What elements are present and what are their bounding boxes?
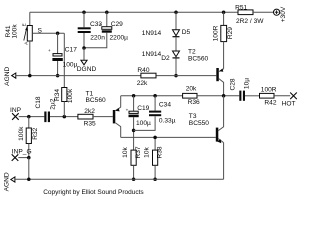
svg-text:T2: T2 [188, 48, 196, 55]
svg-text:100k: 100k [11, 24, 18, 39]
svg-text:R51: R51 [235, 4, 247, 11]
resistor R29 100R [212, 10, 234, 68]
svg-text:C29: C29 [111, 21, 123, 28]
node AGND mid [4, 67, 16, 86]
resistor R42 100R [260, 87, 291, 107]
potentiometer R41 [5, 12, 32, 75]
svg-text:10k: 10k [144, 146, 151, 157]
node AGND bottom [4, 172, 15, 191]
terminal HOT [282, 93, 297, 108]
svg-text:R32: R32 [32, 127, 39, 139]
resistor R37 10k [122, 146, 142, 181]
svg-text:R36: R36 [188, 99, 200, 106]
svg-text:20k: 20k [186, 86, 197, 93]
svg-text:C28: C28 [230, 78, 237, 90]
svg-text:INP_G: INP_G [12, 149, 32, 156]
svg-text:100k: 100k [18, 126, 25, 141]
svg-text:100µ: 100µ [136, 120, 151, 127]
svg-text:D5: D5 [182, 29, 191, 36]
svg-text:C17: C17 [65, 47, 77, 54]
svg-text:100µ: 100µ [63, 61, 78, 68]
wire bottom rail [15, 178, 224, 182]
svg-text:+30V: +30V [280, 6, 287, 22]
svg-text:0.33µ: 0.33µ [159, 118, 176, 125]
svg-text:S: S [38, 27, 43, 34]
svg-text:AGND: AGND [4, 67, 11, 86]
svg-text:10µ: 10µ [243, 78, 250, 89]
capacitor C34 0.33u [134, 96, 176, 131]
svg-text:C34: C34 [159, 102, 171, 109]
wire top rail [30, 11, 238, 13]
svg-text:DGND: DGND [77, 66, 97, 73]
svg-text:E: E [22, 23, 27, 26]
svg-text:1N914: 1N914 [142, 51, 162, 58]
svg-text:C19: C19 [137, 105, 149, 112]
input INP_G [12, 149, 32, 180]
capacitor C18 2u2 [35, 96, 78, 122]
svg-text:100k: 100k [67, 88, 74, 103]
svg-text:Copyright by Elliot Sound Prod: Copyright by Elliot Sound Products [43, 189, 144, 196]
resistor R40 22k [137, 67, 156, 87]
wire T3 base row [121, 136, 216, 140]
svg-text:C18: C18 [35, 96, 42, 108]
svg-text:22k: 22k [137, 80, 148, 87]
svg-text:R40: R40 [137, 67, 149, 74]
transistor T3 BC550 [189, 96, 224, 180]
capacitor C33 [78, 10, 106, 48]
svg-text:+: + [126, 108, 129, 113]
ground DGND [77, 48, 97, 73]
svg-text:BC560: BC560 [188, 55, 208, 62]
capacitor C19 100u [126, 96, 151, 150]
capacitor C17 [48, 33, 78, 77]
diode D5 1N914 [142, 10, 191, 51]
svg-text:2R2 / 3W: 2R2 / 3W [236, 18, 264, 25]
svg-text:100R: 100R [212, 25, 219, 41]
resistor R34 100k [54, 88, 74, 117]
wire pot wiper S [32, 27, 64, 35]
svg-text:R38: R38 [157, 146, 164, 158]
transistor T2 BC560 [188, 48, 224, 95]
terminal +30V [274, 6, 288, 22]
svg-text:HOT: HOT [282, 101, 296, 108]
svg-text:2200µ: 2200µ [110, 35, 129, 42]
svg-text:100R: 100R [261, 87, 277, 94]
svg-text:+: + [48, 48, 51, 53]
svg-text:2k2: 2k2 [84, 108, 95, 115]
svg-text:INP: INP [10, 107, 22, 114]
svg-text:R35: R35 [84, 121, 96, 128]
svg-text:10k: 10k [122, 146, 129, 157]
resistor R51 [235, 4, 273, 25]
svg-text:R37: R37 [135, 146, 142, 158]
resistor R36 20k [183, 86, 240, 106]
resistor R35 2k2 [78, 108, 113, 128]
svg-text:R34: R34 [54, 89, 61, 101]
resistor R32 100k [18, 117, 39, 158]
svg-text:BC550: BC550 [189, 120, 209, 127]
svg-text:R42: R42 [264, 100, 276, 107]
svg-text:220n: 220n [90, 35, 105, 42]
diode D2 1N914 [142, 51, 180, 77]
transistor T1 BC560 [86, 90, 121, 137]
wire AGND rail to T2 base [16, 74, 217, 78]
svg-text:R29: R29 [227, 27, 234, 39]
input INP [10, 107, 44, 120]
wire T1 emitter row [121, 94, 183, 98]
svg-text:BC560: BC560 [86, 97, 106, 104]
wire wiper to R34 [63, 33, 65, 87]
capacitor C29 [82, 10, 128, 49]
svg-text:AGND: AGND [4, 172, 11, 191]
resistor R38 10k [144, 137, 164, 181]
svg-text:1N914: 1N914 [142, 30, 162, 37]
svg-text:D2: D2 [161, 55, 170, 62]
capacitor C28 10u [230, 78, 260, 101]
